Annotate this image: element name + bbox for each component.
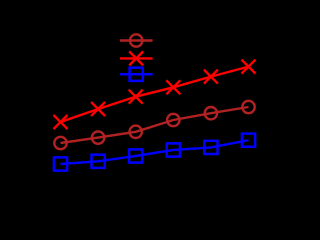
marker O6	[242, 101, 254, 113]
legend entry 2 X marker	[129, 51, 143, 65]
marker O1	[54, 137, 66, 149]
marker X1	[54, 115, 68, 129]
marker O3	[130, 126, 142, 138]
marker S3	[129, 149, 142, 162]
marker X2	[91, 102, 105, 116]
legend entry 1: circle series sample line	[120, 39, 153, 41]
marker S5	[204, 141, 217, 154]
marker X6	[242, 60, 256, 74]
marker X3	[129, 90, 143, 104]
marker O5	[205, 107, 217, 119]
series 3 line (blue square series)	[61, 140, 249, 164]
legend entry 3: square series sample line	[120, 73, 153, 76]
marker X5	[204, 70, 218, 84]
marker X4	[166, 80, 180, 94]
marker S4	[167, 143, 180, 156]
marker S6	[242, 134, 255, 147]
series 1 line (red X series)	[61, 67, 249, 122]
marker O2	[92, 131, 104, 143]
series 2 line (firebrick circle series)	[61, 107, 249, 143]
marker S2	[92, 155, 105, 168]
legend entry 1 circle marker	[130, 34, 142, 46]
marker S1	[54, 157, 67, 170]
legend entry 3 square marker	[130, 68, 143, 81]
legend entry 2: X series sample line	[120, 57, 153, 59]
marker O4	[167, 114, 179, 126]
